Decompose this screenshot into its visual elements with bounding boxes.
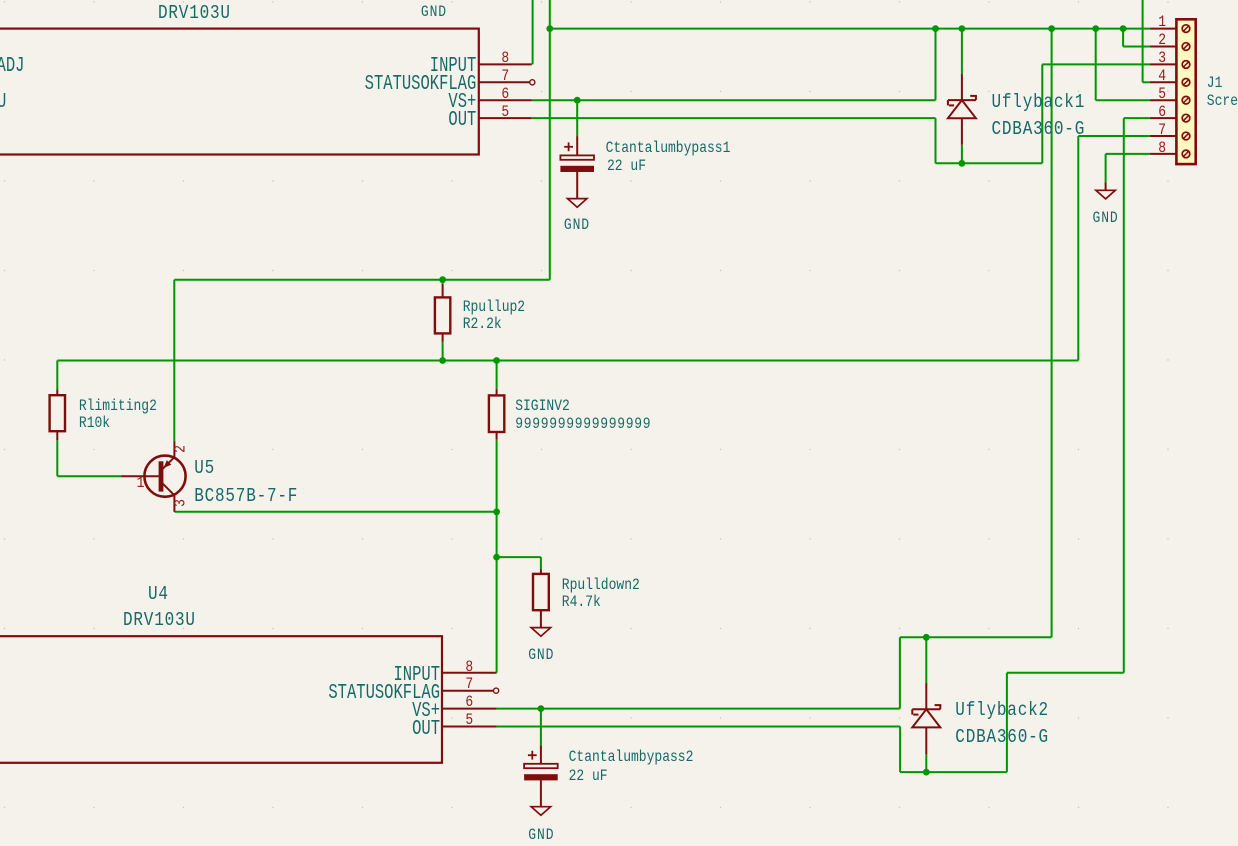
text U5 pin number 3: [172, 499, 188, 507]
text SIGINV2 value: [515, 415, 651, 431]
text U3 pin number 7: [501, 68, 509, 84]
text J1 pin number 3: [1158, 50, 1166, 66]
wire diode1 bottom lead: [961, 145, 963, 164]
wire Rpullup2 top lead: [442, 280, 444, 284]
diode Uflyback2: [912, 683, 941, 754]
text U5 value: [194, 486, 298, 506]
pin U4 pin 7 STATUSOKFLAG: [442, 690, 493, 692]
ground symbol GND under Ctantalumbypass1: [568, 199, 587, 208]
wire cap2 top lead: [540, 709, 542, 746]
text J1 value: [1207, 93, 1238, 109]
unconnected pin marker U3 pin 7: [530, 80, 535, 85]
text Rlimiting2 value: [79, 415, 110, 431]
text J1 pin number 2: [1158, 32, 1166, 48]
pin J1 pin 7: [1150, 135, 1177, 137]
text Uflyback1 value: [992, 119, 1086, 139]
wire VS+2 riser: [899, 637, 901, 708]
text Uflyback2 reference: [955, 700, 1049, 720]
wire pin8 gnd drop: [1105, 154, 1107, 183]
text U5 pin number 1: [137, 475, 145, 491]
wire pin3 feed: [1042, 63, 1150, 65]
wire Rpulldown2 branch: [497, 556, 541, 558]
wire collector net: [174, 511, 496, 513]
wire Rlimiting2 top lead: [56, 361, 58, 390]
text GND label Rpulldown2: [528, 646, 554, 662]
wire U4 OUT net: [497, 726, 900, 728]
text GND label cap1: [564, 217, 590, 233]
wire pin7 feed: [1078, 135, 1150, 137]
text J1 pin number 8: [1158, 139, 1166, 155]
text Ctantalumbypass1 reference: [606, 140, 731, 156]
wire pin7 vertical: [1077, 136, 1079, 361]
text Rpulldown2 reference: [562, 577, 640, 593]
junction SIGINV2 top: [493, 357, 500, 364]
pin J1 pin 2: [1150, 46, 1177, 48]
junction cap2: [538, 705, 545, 712]
junction Rpulldown2 branch: [493, 554, 500, 561]
text Ctantalumbypass1 value: [607, 158, 646, 174]
text Rpullup2 value: [463, 316, 502, 332]
junction diode2 bottom: [923, 769, 930, 776]
wire return vertical: [1006, 673, 1008, 772]
wire OUT jog down: [935, 118, 937, 163]
diode Uflyback1: [948, 74, 977, 145]
wire pin3 riser: [1041, 64, 1043, 163]
text U4 VS+: [412, 701, 440, 722]
wire pin2 vertical: [1122, 29, 1124, 47]
wire emitter drop: [173, 280, 175, 442]
connector J1 body: [1176, 19, 1195, 164]
wire pin6 long vertical: [1123, 118, 1125, 673]
text Ctantalumbypass2 value: [569, 768, 608, 784]
pin J1 pin 5: [1150, 99, 1177, 101]
pin U4 pin 5 OUT: [442, 726, 497, 728]
cap2 bottom lead: [540, 780, 542, 806]
wire mid net horizontal: [174, 279, 550, 281]
text J1 pin number 5: [1158, 86, 1166, 102]
pin J1 pin 6: [1150, 117, 1177, 119]
junction diode1 top: [959, 25, 966, 32]
text U3 INPUT: [430, 57, 477, 78]
text Rpullup2 reference: [463, 298, 525, 314]
unconnected pin marker U4 pin 7: [494, 688, 499, 693]
wire Rpulldown2 top lead: [540, 557, 542, 569]
wire pin2 feed: [1123, 46, 1150, 48]
wire U3 OUT net: [532, 117, 936, 119]
text GND label J1: [1093, 210, 1119, 226]
junction diode1 bottom: [959, 160, 966, 167]
pin U3 pin 5 OUT: [479, 117, 532, 119]
wire U4 VS+ net: [497, 708, 900, 710]
text U3 OUT: [448, 110, 476, 131]
wire pin8 feed: [1106, 153, 1150, 155]
resistor Rpulldown2: [533, 569, 549, 628]
junction long drop: [1048, 25, 1055, 32]
IC U4 body (DRV103U, clipped at left): [0, 636, 442, 763]
transistor U5 BC857B-7-F: [121, 441, 185, 512]
wire pin4 vertical: [1142, 0, 1144, 82]
ground symbol GND under Rpulldown2: [531, 628, 550, 637]
wire diode1 top lead: [961, 29, 963, 75]
pin U4 pin 8 INPUT: [442, 672, 497, 674]
text U3 VS+: [448, 93, 476, 114]
resistor SIGINV2: [489, 389, 504, 440]
junction pin5: [1092, 25, 1099, 32]
text U3 pin number 5: [501, 104, 509, 120]
resistor Rlimiting2: [50, 389, 65, 440]
wire pin4 feed: [1143, 81, 1150, 83]
text U5 reference: [194, 458, 215, 478]
wire GND net top stub B: [549, 0, 551, 29]
text J1 pin number 1: [1158, 14, 1166, 30]
junction Rpullup2 top: [439, 276, 446, 283]
text GND label top: [421, 4, 447, 20]
pin U3 pin 7 STATUSOKFLAG: [479, 81, 530, 83]
wire drop to mid net: [549, 29, 551, 280]
text U3 pin number 8: [501, 50, 509, 66]
text U3 pin number 6: [501, 86, 509, 102]
resistor Rpullup2: [435, 284, 450, 342]
ground symbol GND under Ctantalumbypass2: [531, 807, 550, 816]
junction VS+ riser: [932, 25, 939, 32]
text U4 pin number 5: [465, 712, 473, 728]
pin U3 pin 6 VS+: [479, 99, 532, 101]
wire Rlimiting2 bottom lead: [56, 440, 58, 476]
text U4 pin number 8: [465, 658, 473, 674]
text GND label cap2: [528, 827, 554, 843]
text U3 U (clipped): [0, 93, 6, 114]
junction cap1: [574, 97, 581, 104]
wire pin5 feed: [1096, 99, 1150, 101]
pin U3 pin 8 INPUT: [479, 63, 532, 65]
junction pin2: [1120, 25, 1127, 32]
wire bus y360: [57, 360, 1078, 362]
junction diode2 top: [923, 634, 930, 641]
wire pin6 feed: [1124, 117, 1150, 119]
text U4 pin number 6: [465, 694, 473, 710]
text U5 pin number 2: [172, 445, 188, 453]
junction collector: [493, 508, 500, 515]
cap1 bottom lead: [576, 172, 578, 199]
text U4 value: [123, 610, 196, 630]
wire U3 VS+ net: [532, 99, 936, 101]
IC U3 body (DRV103U, clipped at left): [0, 29, 479, 155]
capacitor Ctantalumbypass1: [560, 136, 594, 172]
text SIGINV2 reference: [515, 398, 570, 414]
pin J1 pin 8: [1150, 153, 1177, 155]
wire return horizontal: [1007, 672, 1124, 674]
text U3 ADJ (clipped): [0, 57, 24, 78]
text U4 STATUSOKFLAG: [328, 683, 440, 704]
wire diode2 bottom lead: [925, 754, 927, 773]
wire Rpullup2 bottom lead: [442, 342, 444, 361]
text J1 pin number 6: [1158, 104, 1166, 120]
text U3 value: [158, 3, 231, 23]
wire GND net top stub A: [532, 0, 534, 64]
text U4 INPUT: [393, 665, 440, 686]
wire pin5 vertical: [1095, 29, 1097, 101]
pin U4 pin 6 VS+: [442, 708, 497, 710]
text Ctantalumbypass2 reference: [569, 749, 694, 765]
pin J1 pin 4: [1150, 81, 1177, 83]
text U4 reference: [148, 584, 169, 604]
wire SIGINV2 top lead: [496, 361, 498, 390]
wire OUT2 jog down: [899, 727, 901, 773]
junction bus/drop: [546, 25, 553, 32]
wire diode2 top lead: [925, 637, 927, 684]
text Uflyback1 reference: [992, 93, 1086, 113]
wire pin1 bus: [550, 28, 1150, 30]
capacitor Ctantalumbypass2: [524, 745, 558, 780]
text Rlimiting2 reference: [79, 398, 157, 414]
text J1 pin number 4: [1158, 68, 1166, 84]
text Rpulldown2 value: [562, 594, 601, 610]
pin J1 pin 1: [1150, 28, 1177, 30]
ground symbol GND under J1 pin8: [1096, 182, 1115, 199]
text U3 STATUSOKFLAG: [365, 75, 477, 96]
wire VS+ riser: [935, 29, 937, 101]
wire OUT bottom run: [936, 162, 1043, 164]
wire long drop to net637: [1051, 29, 1053, 638]
wire base wire: [57, 475, 121, 477]
junction Rpullup2 bottom: [439, 357, 446, 364]
text U4 pin number 7: [465, 676, 473, 692]
wire OUT2 bottom run: [900, 771, 1007, 773]
text Uflyback2 value: [955, 727, 1049, 747]
wire cap1 top lead: [576, 100, 578, 136]
wire net637 horizontal: [900, 636, 1052, 638]
text U4 OUT: [412, 719, 440, 740]
wire SIGINV2 bottom run: [496, 440, 498, 673]
text J1 reference: [1207, 74, 1223, 90]
pin J1 pin 3: [1150, 63, 1177, 65]
text J1 pin number 7: [1158, 122, 1166, 138]
